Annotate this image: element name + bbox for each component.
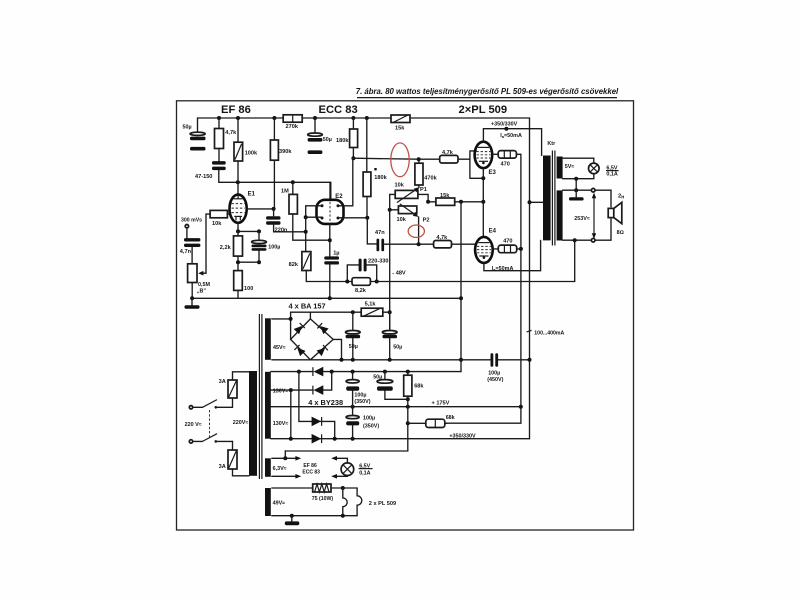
- svg-text:3A: 3A: [219, 379, 226, 385]
- wire doubler link x290.8: [290, 390, 292, 439]
- svg-text:49V≈: 49V≈: [273, 500, 286, 506]
- svg-text:10k: 10k: [397, 217, 407, 223]
- svg-text:180k: 180k: [374, 175, 387, 181]
- svg-text:100k: 100k: [245, 151, 258, 157]
- svg-text:220-330: 220-330: [368, 259, 389, 265]
- svg-text:4,7n: 4,7n: [180, 249, 192, 255]
- wire signal y159 to PL509 grids: [353, 157, 420, 161]
- diode D4 BY238: [312, 434, 322, 444]
- resistor 100k (slashed): [234, 118, 258, 182]
- resistor 470 E4 screen: [493, 239, 521, 253]
- wire doubler link x298.9 with D3: [299, 372, 335, 439]
- svg-text:3A: 3A: [219, 464, 226, 470]
- svg-text:2,2k: 2,2k: [220, 245, 232, 251]
- capacitor 220n coupling: [266, 216, 308, 234]
- wire -48V / feedback line to speaker winding: [377, 271, 575, 282]
- capacitor 50u input filter: [183, 118, 206, 151]
- svg-text:„B”: „B”: [197, 288, 207, 294]
- svg-text:100µ: 100µ: [363, 416, 375, 422]
- capacitor 50u bias filter 2: [382, 312, 402, 360]
- svg-text:+350/330V: +350/330V: [449, 434, 476, 440]
- ground chassis heater: [285, 516, 300, 526]
- wire P1/P2 left vertical to bias node: [389, 194, 391, 330]
- output transformer Ktr: [543, 141, 563, 246]
- wire common bus x461: [459, 202, 463, 372]
- wire E2 bottom cathode node: [328, 224, 332, 256]
- wire W3 +175V rail: [271, 401, 521, 409]
- wire screen bus vertical x521: [445, 154, 523, 423]
- svg-text:E1: E1: [248, 192, 256, 198]
- label EF86/ECC83 heaters: [302, 463, 320, 476]
- svg-text:220n: 220n: [275, 227, 288, 233]
- svg-text:EF 86: EF 86: [221, 104, 251, 116]
- ground chassis at 5V/speaker junction: [569, 179, 584, 201]
- switch link dashed: [209, 410, 211, 438]
- svg-text:Ktr: Ktr: [547, 141, 556, 147]
- resistor 180k (second, hangs from rail): [363, 118, 388, 218]
- svg-text:+350/330V: +350/330V: [491, 122, 518, 128]
- svg-text:253V≈: 253V≈: [574, 216, 590, 222]
- svg-text:E4: E4: [489, 229, 497, 235]
- svg-text:4,7k: 4,7k: [225, 130, 237, 136]
- capacitor 100u 450V: [487, 353, 503, 383]
- capacitor 50u heater-bias filter: [373, 372, 410, 402]
- svg-text:47-150: 47-150: [195, 174, 212, 180]
- label 130V windings: [273, 389, 289, 428]
- svg-text:130V≈: 130V≈: [273, 421, 289, 427]
- wire E3 anode up and over to OT primary top: [483, 127, 541, 156]
- svg-text:130V≈: 130V≈: [273, 389, 289, 395]
- transformer secondary bar 6,3V: [265, 458, 271, 477]
- svg-text:ECC 83: ECC 83: [319, 104, 358, 116]
- wire 49V bottom return: [272, 500, 357, 517]
- wire W5 +350/330V rail: [271, 434, 530, 441]
- svg-text:P2: P2: [423, 217, 430, 223]
- svg-text:0,1A: 0,1A: [606, 171, 617, 177]
- heater winding 49V circuit: [272, 484, 357, 502]
- svg-text:(350V): (350V): [354, 399, 370, 405]
- svg-text:2×PL 509: 2×PL 509: [459, 104, 508, 116]
- potentiometer P1 10k: [390, 183, 430, 204]
- svg-text:8Ω: 8Ω: [617, 230, 624, 236]
- label 6,5V/0,1A pilot: [359, 464, 373, 477]
- resistor 4,7k (EF86 supply): [215, 118, 238, 161]
- svg-text:10k: 10k: [212, 221, 222, 227]
- resistor 470 E3 screen: [492, 151, 521, 168]
- wire E1 anode to 220n: [247, 207, 276, 216]
- wire bias minus rail y360: [272, 358, 532, 362]
- wire bias DC+ line y312: [291, 310, 392, 339]
- red ellipse annotation 2: [408, 225, 424, 237]
- diode D-TR: [317, 323, 328, 334]
- svg-text:470: 470: [503, 239, 512, 245]
- svg-text:470: 470: [501, 162, 510, 168]
- border frame: [177, 101, 634, 530]
- heater winding 6,3V circuit: [272, 451, 301, 479]
- svg-text:4 x BA 157: 4 x BA 157: [289, 301, 326, 310]
- resistor 68k horizontal: [408, 415, 455, 427]
- wire heater-ref vertical x407.8: [285, 407, 410, 451]
- svg-text:0,5M: 0,5M: [198, 282, 210, 288]
- svg-text:300 mVs: 300 mVs: [181, 218, 202, 224]
- svg-text:5,1k: 5,1k: [365, 302, 377, 308]
- tube E4 PL509: [475, 229, 497, 263]
- svg-text:180k: 180k: [336, 138, 349, 144]
- svg-text:6,3V≈: 6,3V≈: [273, 466, 287, 472]
- resistor 15k (driver to cathode line): [428, 193, 485, 206]
- diode D-BR: [317, 345, 328, 356]
- speaker winding wires with terminals: [563, 188, 611, 242]
- svg-text:Ia=50mA: Ia=50mA: [492, 266, 514, 272]
- svg-text:4,7k: 4,7k: [436, 235, 448, 241]
- svg-text:100µ: 100µ: [488, 370, 500, 376]
- svg-text:0,1A: 0,1A: [359, 471, 370, 477]
- capacitor 4,7n input: [180, 238, 201, 264]
- svg-text:4 x BY238: 4 x BY238: [308, 398, 343, 407]
- wire B+ center tap: [528, 200, 544, 204]
- svg-text:2H: 2H: [618, 193, 624, 199]
- tube E3 PL509: [475, 142, 497, 176]
- heater loops 2xPL509: [343, 488, 396, 516]
- node dots on top rail: [217, 116, 369, 120]
- speaker symbol: [608, 193, 624, 236]
- svg-text:100: 100: [244, 286, 253, 292]
- capacitor 100u cathode bypass: [252, 231, 281, 264]
- potentiometer 0,5M volume: [188, 214, 211, 298]
- resistor 100: [234, 260, 259, 298]
- svg-text:7. ábra. 80 wattos teljesítmén: 7. ábra. 80 wattos teljesítménygerősítő …: [356, 87, 619, 96]
- svg-text:220V≈: 220V≈: [233, 420, 249, 426]
- resistor 4,7k E3 grid: [419, 150, 470, 163]
- resistor 2,2k cathode: [220, 231, 243, 262]
- svg-text:- 48V: - 48V: [392, 271, 406, 277]
- diode D-TL: [294, 323, 305, 334]
- svg-text:390k: 390k: [279, 149, 292, 155]
- wire E4 anode down and over to OT primary bottom: [484, 240, 541, 270]
- diode D3 BY238: [312, 417, 322, 427]
- svg-text:50µ: 50µ: [373, 375, 382, 381]
- transformer secondary bar 130V+130V: [265, 372, 271, 439]
- wire 45V winding top to bridge: [272, 317, 293, 321]
- svg-text:1µ: 1µ: [333, 250, 339, 256]
- svg-text:45V≈: 45V≈: [273, 345, 286, 351]
- svg-text:5V≈: 5V≈: [565, 164, 575, 170]
- fuse 3A lower: [219, 441, 249, 475]
- capacitor 100u 350V lower: [346, 407, 379, 439]
- wire E2 right grid to 180k2/47n node: [338, 216, 377, 244]
- wire anode sub-rail y182: [219, 170, 331, 200]
- svg-text:8,2k: 8,2k: [355, 288, 367, 294]
- capacitor 1u: [324, 250, 339, 300]
- label 6,5V/0,1A (output lamp): [606, 166, 619, 178]
- input terminal 300mV: [181, 218, 202, 239]
- svg-text:(350V): (350V): [363, 424, 379, 430]
- resistor 82k (slashed): [289, 252, 311, 282]
- wire bridge right corner L-joint: [333, 339, 341, 359]
- capacitor 220-330: [347, 259, 388, 282]
- measurement arrow 253V: [574, 193, 596, 239]
- svg-text:15k: 15k: [395, 125, 405, 131]
- svg-text:ECC 83: ECC 83: [302, 470, 320, 476]
- svg-text:50µ: 50µ: [393, 345, 402, 351]
- capacitor 50u bias filter 1: [346, 312, 361, 360]
- svg-text:2 x PL 509: 2 x PL 509: [369, 501, 396, 507]
- svg-text:220 V≈: 220 V≈: [185, 422, 202, 428]
- diode D2 BY238: [313, 385, 323, 395]
- pilot lamp 6,5V 0,1A: [331, 456, 354, 479]
- wire E2 right anode up to 180k node: [338, 158, 353, 206]
- resistor 5,1k (slashed): [361, 302, 383, 317]
- diode D1 BY238: [313, 367, 323, 377]
- lamp 5V winding circuit: [563, 158, 600, 181]
- svg-text:100µ: 100µ: [268, 245, 280, 251]
- svg-text:47n: 47n: [375, 230, 385, 236]
- transformer secondary bar 49V: [265, 488, 271, 516]
- svg-text:10k: 10k: [395, 183, 405, 189]
- wire ground rail y298: [190, 296, 461, 300]
- svg-text:470k: 470k: [424, 176, 437, 182]
- svg-text:68k: 68k: [446, 415, 455, 421]
- transformer winding bar 45V: [265, 318, 271, 360]
- capacitor 47-150: [195, 161, 226, 180]
- wire E3 grid bracket: [470, 151, 485, 180]
- svg-text:50µ: 50µ: [183, 124, 192, 130]
- svg-text:Ia=50mA: Ia=50mA: [500, 133, 522, 139]
- svg-text:E3: E3: [489, 170, 497, 176]
- wire B+ top rail: [198, 117, 530, 119]
- resistor 180k (first): [336, 118, 358, 160]
- svg-text:EF 86: EF 86: [303, 463, 317, 469]
- resistor 15k (in line, slashed): [391, 115, 410, 131]
- svg-text:4,7k: 4,7k: [442, 150, 454, 156]
- svg-text:15k: 15k: [440, 193, 450, 199]
- resistor 10k grid stopper: [210, 210, 230, 226]
- tube E1 EF86: [230, 182, 256, 222]
- wire W2 with D2: [271, 372, 332, 393]
- mains switch upper pole: [189, 400, 232, 409]
- capacitor 100u 350V upper: [346, 372, 371, 407]
- svg-text:75 (10W): 75 (10W): [312, 496, 334, 502]
- resistor 8,2k: [306, 278, 378, 294]
- resistor 270k (in line with rail): [283, 115, 302, 130]
- svg-text:50µ: 50µ: [323, 137, 332, 143]
- tube E2 ECC83: [317, 182, 344, 224]
- svg-text:E2: E2: [335, 194, 343, 200]
- wire feedback from speaker winding bottom: [573, 238, 577, 281]
- red ellipse annotation 1: [391, 143, 409, 177]
- svg-text:68k: 68k: [414, 384, 424, 390]
- fuse 3A upper: [219, 372, 249, 408]
- svg-text:P1: P1: [420, 187, 427, 193]
- wire B+ vertical drop (right side, to +350/330V corner): [529, 118, 531, 439]
- resistor 68k vertical: [404, 372, 425, 407]
- wire E1 cathode node: [236, 223, 261, 234]
- mains transformer 220V primary: [233, 314, 262, 479]
- diode D-BL: [294, 345, 305, 356]
- caption text: [356, 87, 619, 98]
- bridge rectifier 4xBA157 diamond: [291, 319, 334, 360]
- wire E2 left pins bracket: [304, 206, 322, 252]
- capacitor 50u (ECC83 supply filter): [308, 118, 332, 154]
- svg-text:100µ: 100µ: [354, 392, 366, 398]
- potentiometer P2 10k: [388, 204, 430, 244]
- svg-text:270k: 270k: [286, 124, 299, 130]
- svg-text:+ 175V: + 175V: [432, 401, 450, 407]
- ground chassis (input stage): [185, 298, 200, 308]
- wire W1 y371.6 common rail: [271, 370, 461, 374]
- wire E3 cathode column to E4: [482, 168, 484, 237]
- resistor 4,7k E4 grid: [419, 235, 476, 248]
- svg-text:1M: 1M: [281, 189, 289, 195]
- resistor 390k: [270, 118, 292, 209]
- capacitor 47n: [375, 230, 421, 252]
- label 100-400mA with tick: [527, 330, 565, 336]
- resistor 1M: [281, 182, 330, 240]
- svg-text:82k: 82k: [289, 262, 299, 268]
- mains switch lower pole: [189, 434, 232, 443]
- svg-text:100...400mA: 100...400mA: [534, 330, 564, 336]
- resistor 470k: [415, 159, 438, 187]
- svg-text:50µ: 50µ: [349, 344, 358, 350]
- svg-text:(450V): (450V): [487, 377, 503, 383]
